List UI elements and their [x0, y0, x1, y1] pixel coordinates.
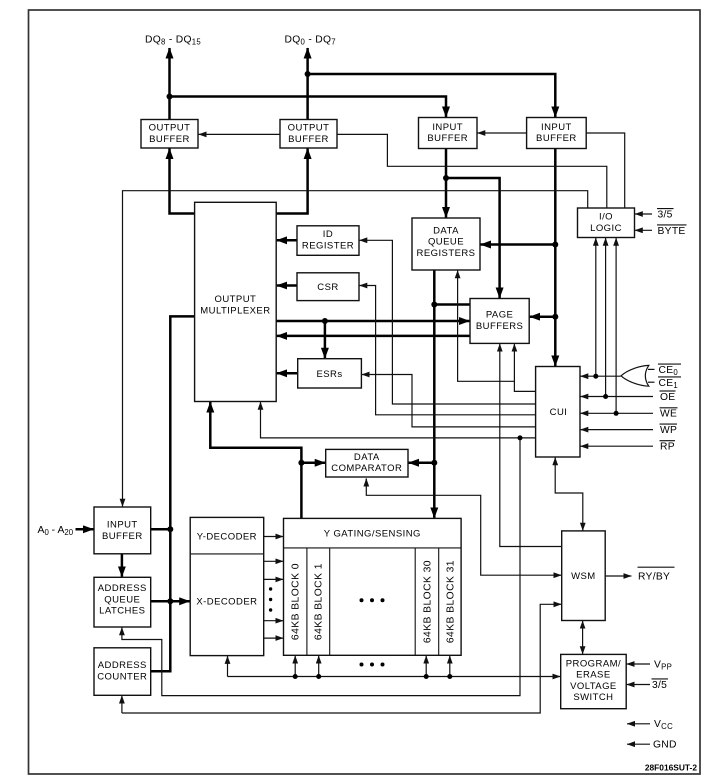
svg-text:REGISTER: REGISTER	[302, 241, 354, 252]
page buffers box	[470, 299, 529, 344]
wire output mux left side up to output buffer L	[170, 149, 195, 214]
svg-text:INPUT: INPUT	[541, 122, 572, 133]
wire arrowhead up into WSM bottom	[582, 621, 584, 626]
wire branch into data comparator left edge	[301, 462, 325, 465]
wire address counter bottom to WSM	[122, 604, 562, 713]
svg-text:LOGIC: LOGIC	[590, 223, 622, 234]
node junction DQR right	[552, 242, 558, 248]
wire CUI to ESRs	[362, 375, 536, 427]
wire block select line to program/erase switch	[228, 676, 561, 678]
OR gate for CE0/CE1	[621, 365, 649, 386]
svg-text:MULTIPLEXER: MULTIPLEXER	[200, 305, 270, 316]
svg-text:DATA: DATA	[354, 452, 380, 463]
wire CUI to CSR	[359, 286, 535, 415]
wire CE1 input stub of gate	[648, 381, 655, 383]
node junction block 1 select	[316, 674, 321, 679]
wire up into x-decoder bottom	[227, 656, 229, 677]
wire up into 64KB block 1	[318, 656, 320, 677]
wire x-decoder to block row 1	[264, 560, 284, 562]
wire OE junction up into I/O logic bottom	[605, 238, 607, 397]
wire GND	[627, 743, 650, 745]
svg-text:3/5: 3/5	[658, 210, 673, 221]
svg-text:ID: ID	[323, 229, 333, 240]
wire OE into CUI	[580, 396, 653, 398]
node junction data comparator right	[431, 460, 437, 466]
svg-text:3/5: 3/5	[652, 680, 667, 691]
x/y decoder box	[190, 517, 264, 655]
node junction block 30 select	[424, 674, 429, 679]
svg-text:PROGRAM/: PROGRAM/	[566, 658, 621, 669]
wire x-decoder to block row 4	[264, 637, 284, 639]
svg-text:64KB BLOCK 0: 64KB BLOCK 0	[291, 563, 302, 640]
svg-text:SWITCH: SWITCH	[573, 692, 613, 703]
wire 3/5 into program/erase switch	[627, 684, 651, 686]
svg-text:ERASE: ERASE	[576, 670, 610, 681]
wire ESRs to output mux	[277, 372, 298, 375]
svg-text:VOLTAGE: VOLTAGE	[570, 681, 617, 692]
address counter box	[94, 648, 151, 696]
svg-text:BUFFER: BUFFER	[536, 133, 577, 144]
wire WP into CUI	[580, 429, 653, 431]
svg-text:ADDRESS: ADDRESS	[98, 583, 147, 594]
wire A0-A20 into address input buffer	[76, 528, 94, 531]
wire branch down into ESRs top	[324, 321, 327, 358]
wire CUI line branch down to address queue latches	[122, 438, 520, 696]
svg-text:OUTPUT: OUTPUT	[149, 123, 191, 134]
wire branch into page buffers left edge	[434, 303, 470, 306]
svg-text:64KB BLOCK 30: 64KB BLOCK 30	[422, 560, 433, 643]
wire address input buffer down to address queue latches	[121, 554, 124, 577]
wire page buffers to output mux	[277, 335, 470, 338]
svg-text:RP: RP	[660, 442, 675, 453]
CUI box	[536, 367, 580, 458]
svg-text:BUFFER: BUFFER	[427, 133, 468, 144]
address input buffer box	[94, 507, 151, 554]
wire CE junction up into I/O logic bottom	[595, 238, 597, 376]
svg-text:CUI: CUI	[550, 407, 568, 418]
ID register box	[297, 226, 359, 256]
svg-text:BUFFER: BUFFER	[149, 134, 190, 145]
svg-text:REGISTERS: REGISTERS	[417, 248, 476, 259]
svg-text:BUFFER: BUFFER	[102, 531, 143, 542]
wire input buffer R down to CUI top	[554, 149, 557, 367]
wire CE gate output into CUI	[580, 375, 620, 377]
wire branch from input buffer L line to page buffers top	[446, 178, 500, 298]
svg-text:Y GATING/SENSING: Y GATING/SENSING	[324, 529, 421, 540]
data comparator box	[326, 449, 408, 477]
wire 3/5 into I/O logic	[635, 213, 652, 215]
wire CUI to output mux bottom	[261, 402, 536, 438]
input buffer U4 box	[527, 118, 587, 149]
svg-text:WE: WE	[660, 409, 677, 420]
wire up into 64KB block 30	[425, 656, 427, 677]
wire output buffer R to output buffer L	[199, 133, 281, 135]
wire branch to data queue registers right edge	[481, 243, 556, 246]
svg-text:28F016SUT-2: 28F016SUT-2	[645, 763, 697, 773]
wire CUI to ID register	[359, 240, 535, 404]
svg-text:X-DECODER: X-DECODER	[196, 596, 257, 607]
svg-text:LATCHES: LATCHES	[99, 606, 145, 617]
wire ID register to output mux	[277, 239, 297, 242]
svg-text:WP: WP	[660, 425, 677, 436]
node junction data comparator left	[298, 460, 304, 466]
wire VPP into program/erase switch	[627, 663, 651, 665]
svg-text:INPUT: INPUT	[432, 122, 463, 133]
wire output mux left edge down the page to address counter	[151, 316, 195, 671]
wire address queue latches to x-decoder	[151, 600, 190, 603]
wire input buffer R right edge to I/O logic top	[586, 133, 625, 208]
wire output mux to page buffers	[276, 320, 469, 323]
wire WE into CUI	[580, 412, 653, 414]
node junction input buffer L branch	[443, 175, 449, 181]
wire branch to data queue registers bottom	[458, 270, 515, 381]
svg-text:PAGE: PAGE	[486, 310, 514, 321]
wire Y gating up to output mux bottom	[210, 402, 301, 518]
wire input buffer R to input buffer L	[477, 132, 526, 134]
wire DQ0-DQ7 bus up from output buffer R	[306, 48, 309, 120]
WSM box	[562, 531, 606, 621]
wire address input buffer right edge to vertical bus	[151, 528, 171, 531]
svg-text:ESRs: ESRs	[316, 369, 342, 380]
wire x-decoder to block row 2	[264, 578, 284, 580]
node junction block 0 select	[293, 674, 298, 679]
wire page buffers bottom to WSM left edge	[500, 344, 562, 547]
svg-text:I/O: I/O	[599, 212, 613, 223]
node junction page buffers left	[431, 302, 437, 308]
node junction DQ8 line	[167, 94, 173, 100]
ESRs box	[298, 359, 362, 388]
svg-text:OUTPUT: OUTPUT	[288, 123, 330, 134]
data queue registers box	[412, 218, 480, 270]
wire thick horizontal from DQ8 junction to input buffer L	[170, 97, 447, 118]
output buffer U1 box	[141, 120, 198, 149]
wire BYTE into I/O logic	[635, 229, 652, 231]
wire y-decoder to y gating	[264, 536, 284, 538]
output buffer U2 box	[280, 120, 337, 149]
wire data queue registers bottom down to Y gating top	[433, 270, 436, 518]
node junction address input buffer	[167, 526, 173, 532]
wire I/O logic top to address input buffer top	[123, 191, 588, 507]
svg-text:QUEUE: QUEUE	[104, 594, 140, 605]
program/erase voltage switch box	[561, 654, 627, 708]
svg-text:64KB BLOCK 31: 64KB BLOCK 31	[445, 560, 456, 643]
wire branch to page buffers right edge	[530, 315, 556, 318]
node junction OE line	[603, 394, 608, 399]
node junction CUI mux line	[518, 435, 523, 440]
I/O logic box	[578, 208, 635, 238]
wire RP into CUI	[580, 445, 653, 447]
address queue latches box	[94, 577, 151, 627]
node junction page buffers right	[552, 314, 558, 320]
svg-text:64KB BLOCK 1: 64KB BLOCK 1	[314, 563, 325, 640]
svg-text:OUTPUT: OUTPUT	[215, 294, 257, 305]
y gating sensing box	[284, 518, 462, 655]
decorative ellipsis dots	[269, 587, 272, 590]
output multiplexer box	[195, 202, 277, 401]
svg-text:INPUT: INPUT	[107, 520, 138, 531]
svg-text:BUFFER: BUFFER	[288, 134, 329, 145]
node junction block 31 select	[447, 674, 452, 679]
svg-text:RY/BY: RY/BY	[638, 571, 670, 582]
wire branch into data comparator right edge	[409, 462, 435, 465]
wire input buffer L down to data queue registers	[445, 149, 448, 218]
svg-text:CSR: CSR	[317, 282, 338, 293]
wire x-decoder to block row 3	[264, 620, 284, 622]
svg-text:BUFFERS: BUFFERS	[476, 321, 524, 332]
wire CUI bottom to WSM top bidirectional	[555, 459, 583, 531]
wire WSM to RY/BY	[605, 575, 631, 577]
CSR box	[297, 273, 359, 301]
svg-text:COUNTER: COUNTER	[97, 671, 147, 682]
svg-text:COMPARATOR: COMPARATOR	[331, 463, 402, 474]
wire WSM to program/erase switch bidirectional	[582, 623, 584, 655]
svg-text:QUEUE: QUEUE	[428, 237, 464, 248]
svg-text:WSM: WSM	[571, 571, 596, 582]
wire CUI to page buffers bottom	[514, 344, 535, 392]
node junction DQ0 line	[305, 71, 311, 77]
wire arrowhead up into address counter bottom	[121, 696, 123, 702]
svg-text:OE: OE	[660, 392, 675, 403]
node junction CE line	[593, 374, 598, 379]
wire thick horizontal from DQ0 junction to input buffer R	[308, 74, 556, 117]
svg-text:ADDRESS: ADDRESS	[98, 660, 147, 671]
node junction address queue latches	[167, 598, 173, 604]
wire arrowhead up into data comparator bottom	[365, 479, 367, 485]
wire up into 64KB block 0	[294, 656, 296, 677]
wire CSR to output mux	[277, 284, 297, 287]
svg-text:DQ0 - DQ7: DQ0 - DQ7	[285, 34, 336, 46]
wire arrowhead up into CUI bottom	[554, 457, 556, 463]
wire data comparator bottom to WSM	[366, 479, 561, 576]
node junction ESRs feed	[322, 318, 328, 324]
wire output mux right side up to output buffer R	[276, 149, 307, 214]
svg-text:BYTE: BYTE	[658, 226, 686, 237]
svg-text:DATA: DATA	[433, 225, 459, 236]
wire up into 64KB block 31	[449, 656, 451, 677]
wire CE0 input stub of gate	[648, 368, 655, 370]
wire DQ8-DQ15 bus up from output buffer L	[168, 48, 171, 120]
wire output buffer R right edge to I/O logic top	[337, 134, 607, 208]
svg-text:GND: GND	[653, 740, 677, 751]
node junction WE line	[614, 411, 619, 416]
wire VCC	[627, 723, 650, 725]
svg-text:Y-DECODER: Y-DECODER	[197, 532, 257, 543]
input buffer U3 box	[419, 118, 478, 149]
wire WE junction up into I/O logic bottom	[615, 238, 617, 413]
